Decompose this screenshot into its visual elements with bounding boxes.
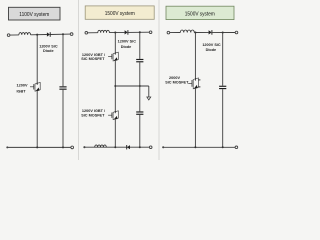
diode label 1200V SiC Diode [202, 43, 221, 52]
bottom rail junction at capacitor [139, 146, 141, 148]
svg-text:SiC MOSFET: SiC MOSFET [81, 113, 105, 117]
svg-text:SiC MOSFET: SiC MOSFET [81, 57, 105, 61]
wire diode to output terminal [212, 31, 235, 33]
capacitor C1 [59, 86, 66, 89]
wire switch node down to MOSFET drain [194, 33, 196, 79]
bottom rail wire [7, 146, 71, 148]
inductor L1 [19, 33, 31, 35]
diode D1 1200V SiC [47, 32, 50, 37]
bottom rail junction at IGBT [36, 146, 38, 148]
input terminal (open circle) [167, 31, 170, 34]
bottom rail terminal (open circle) [235, 146, 238, 149]
svg-text:1200V SiC: 1200V SiC [202, 43, 221, 47]
input terminal (open circle) [7, 34, 10, 37]
transistor label 2000V SiC MOSFET [165, 76, 189, 85]
svg-text:1500V system: 1500V system [185, 11, 215, 17]
inductor L3 bottom [95, 145, 107, 147]
input terminal (open circle) [85, 32, 88, 35]
output terminal (open circle) [149, 31, 152, 34]
title box 1500V system (middle) [85, 6, 154, 19]
svg-text:Diode: Diode [121, 45, 132, 49]
wire lower transistor to bottom rail [114, 119, 116, 147]
svg-text:Diode: Diode [206, 48, 217, 52]
wire input to inductor [88, 32, 98, 34]
inductor L2 top [98, 30, 110, 32]
node junction (output node) [62, 33, 64, 35]
wire switch node down to IGBT collector [36, 35, 38, 83]
wire output node down to capacitor [222, 33, 224, 86]
panel divider middle/right [158, 0, 160, 160]
panel divider left/middle [78, 0, 80, 160]
svg-text:1200V SiC: 1200V SiC [39, 45, 58, 49]
node junction (output node) [222, 31, 224, 33]
bottom rail junction at capacitor [222, 146, 224, 148]
bottom rail junction at capacitor [62, 146, 64, 148]
capacitor C3 lower [136, 111, 143, 114]
transistor Q3 lower 1200V IGBT / SiC MOSFET [108, 111, 118, 120]
bottom rail left end dot [83, 146, 85, 148]
node junction (switch node) [36, 34, 38, 36]
transistor Q1 1200V IGBT [30, 82, 40, 91]
svg-text:2000V: 2000V [169, 76, 180, 80]
wire capacitor to bottom rail [139, 115, 141, 147]
wire inductor to diode [194, 31, 208, 33]
transistor Q4 2000V SiC MOSFET [188, 78, 200, 89]
tap drop wire [148, 86, 150, 97]
diode label 1200V SiC Diode [39, 45, 58, 53]
title box 1500V system (right) [166, 6, 234, 19]
wire diode to output [50, 33, 70, 35]
diode D3 on bottom rail (pointing left) [127, 145, 130, 149]
transistor Q2 upper 1200V IGBT / SiC MOSFET [108, 52, 118, 61]
wire inductor to diode [109, 31, 124, 33]
wire output node down to upper capacitor [139, 32, 141, 59]
bottom rail left end dot [162, 146, 164, 148]
node junction (midpoint) [114, 85, 116, 87]
bottom rail wire [163, 146, 235, 148]
bottom rail terminal (open circle) [149, 146, 152, 149]
wire between transistors [114, 61, 116, 112]
bottom rail junction at lower transistor [114, 146, 116, 148]
svg-text:1100V system: 1100V system [19, 12, 49, 18]
bottom rail terminal (open circle) [71, 146, 74, 149]
node junction (output node) [139, 31, 141, 33]
junction tap and capacitor leg [139, 85, 141, 87]
inductor L4 [180, 30, 194, 33]
bottom rail junction at MOSFET [194, 146, 196, 148]
svg-text:SiC MOSFET: SiC MOSFET [165, 81, 189, 85]
diode label 1200V SiC Diode [118, 40, 137, 49]
wire IGBT emitter down to bottom rail [36, 90, 38, 147]
wire MOSFET source to bottom rail [194, 88, 196, 147]
svg-text:1200V SiC: 1200V SiC [118, 40, 137, 44]
wire input to inductor [170, 32, 181, 34]
svg-text:1500V system: 1500V system [105, 11, 135, 17]
midpoint tap wire [115, 85, 149, 87]
node junction (switch node) [194, 31, 196, 33]
wire capacitor down to bottom rail [62, 90, 64, 148]
output terminal (open circle) [70, 33, 73, 36]
wire diode to output terminal [128, 31, 149, 33]
lower transistor label [81, 109, 106, 117]
node junction (switch node) [114, 31, 116, 33]
wire input to inductor [10, 34, 19, 36]
wire inductor to diode [31, 34, 47, 36]
svg-text:1200V: 1200V [17, 84, 28, 88]
title box 1100V system [9, 7, 61, 20]
upper transistor label [81, 53, 106, 61]
wire capacitor to bottom rail [222, 89, 224, 147]
svg-text:IGBT: IGBT [16, 89, 26, 93]
bottom rail left end dot [6, 146, 8, 148]
wire upper capacitor to lower capacitor [139, 62, 141, 111]
capacitor C2 upper [136, 59, 143, 62]
output terminal (open circle) [235, 31, 238, 34]
diode D4 1200V SiC [209, 30, 212, 35]
tap output arrow [147, 97, 151, 100]
wire switch node down to upper transistor [114, 33, 116, 54]
wire output node down to capacitor [62, 34, 64, 86]
svg-text:Diode: Diode [43, 49, 54, 53]
transistor label 1200V IGBT [16, 84, 27, 94]
diode D2 1200V SiC [125, 30, 128, 35]
bottom rail wire [84, 146, 149, 148]
capacitor C4 [219, 86, 226, 89]
